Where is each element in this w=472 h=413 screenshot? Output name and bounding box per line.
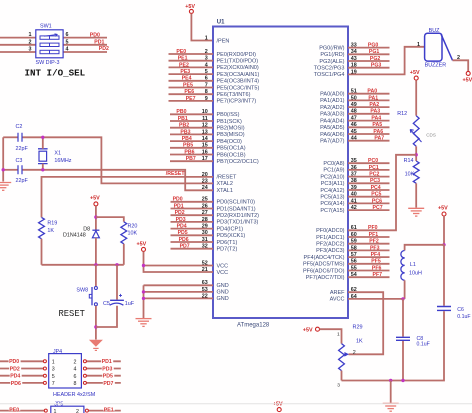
svg-text:ATmega128: ATmega128 (237, 322, 270, 328)
ground at R14 (408, 207, 424, 209)
svg-text:TOSC2/PG3: TOSC2/PG3 (314, 66, 345, 72)
wire C6 top lead (443, 245, 445, 306)
svg-text:22pF: 22pF (16, 146, 29, 152)
svg-text:PB7(OC2/OC1C): PB7(OC2/OC1C) (217, 159, 259, 165)
svg-text:PF5: PF5 (371, 259, 381, 265)
svg-text:+5V: +5V (410, 70, 420, 76)
wire XTAL1 net: C3 - X1 bottom - pin 24 (3, 169, 17, 171)
svg-text:PD4(ICP1): PD4(ICP1) (217, 226, 244, 232)
svg-text:PC5(A13): PC5(A13) (320, 195, 344, 201)
svg-text:PC0(A8): PC0(A8) (323, 161, 344, 167)
svg-text:3: 3 (29, 47, 32, 53)
wire PA0-PA7 stubs (348, 93, 390, 95)
potentiometer R29 (339, 344, 345, 371)
wire PF1-PF7 stubs (348, 236, 390, 238)
svg-text:PE1: PE1 (104, 408, 114, 413)
svg-text:PB5(OC1A): PB5(OC1A) (217, 146, 246, 152)
svg-text:8: 8 (74, 381, 77, 387)
wire SW1 left pins 1-3 (0, 37, 36, 39)
svg-text:PD0: PD0 (9, 359, 19, 365)
svg-text:PA7: PA7 (374, 136, 384, 142)
resistor R20 (121, 222, 127, 244)
svg-text:PC1(A9): PC1(A9) (323, 168, 344, 174)
wire R29 pin 1 (320, 329, 342, 343)
svg-text:PA3: PA3 (370, 109, 380, 115)
svg-text:PD2: PD2 (99, 46, 109, 52)
inductor L1 (401, 251, 405, 258)
wire L1 bottom to AVCC (404, 280, 406, 299)
svg-text:7: 7 (52, 381, 55, 387)
svg-text:PG0(/RW): PG0(/RW) (319, 45, 344, 51)
ground at C2/C3 (0, 182, 11, 184)
svg-text:0.1uF: 0.1uF (457, 314, 470, 320)
svg-text:PD7: PD7 (180, 244, 190, 250)
svg-text:GND: GND (217, 290, 229, 296)
svg-text:PE7: PE7 (186, 96, 196, 102)
ground reset (triangle) (89, 340, 103, 347)
svg-text:PD5: PD5 (178, 230, 188, 236)
svg-text:XTAL1: XTAL1 (217, 188, 233, 194)
svg-text:6: 6 (66, 32, 69, 38)
svg-text:1: 1 (54, 409, 57, 413)
svg-text:PD5(XCK1): PD5(XCK1) (217, 233, 246, 239)
svg-text:PE0(RXD0/PDI): PE0(RXD0/PDI) (217, 52, 257, 58)
wire +5V down to L1 junction (443, 216, 445, 245)
svg-text:PA6(AD6): PA6(AD6) (320, 132, 345, 138)
svg-text:PB7: PB7 (186, 156, 196, 162)
svg-text:4: 4 (74, 367, 77, 373)
svg-text:PA2: PA2 (369, 102, 379, 108)
svg-text:+5V: +5V (90, 196, 100, 202)
junction reset rail at C5 (115, 263, 118, 266)
svg-text:PD4: PD4 (177, 224, 187, 230)
wire JP5 right pin (88, 410, 120, 412)
junction reset rail at D8/SW8 (94, 263, 97, 266)
svg-text:PD6(T1): PD6(T1) (217, 240, 238, 246)
svg-text:PD3: PD3 (102, 366, 112, 372)
svg-text:PF4: PF4 (371, 252, 381, 258)
wire VCC pins 52/21 (144, 252, 214, 272)
junction crystal bottom (41, 168, 44, 171)
svg-text:C3: C3 (16, 158, 23, 164)
svg-text:PF0(ADC0): PF0(ADC0) (316, 228, 345, 234)
svg-text:HEADER 4x2/SM: HEADER 4x2/SM (53, 392, 96, 398)
svg-text:+5V: +5V (137, 242, 147, 248)
svg-text:10K: 10K (128, 231, 138, 237)
wire PD0-PD7 stubs (171, 201, 214, 203)
svg-text:PE6(T3/INT6): PE6(T3/INT6) (217, 92, 251, 98)
svg-text:C6: C6 (457, 307, 464, 313)
node labels JP4 right PD1/3/5/7 (101, 359, 113, 364)
wire C6 bottom lead (403, 311, 444, 380)
wire divider to PF0(ADC0) (348, 155, 416, 231)
svg-text:PA3(AD3): PA3(AD3) (320, 112, 345, 118)
svg-text:AVCC: AVCC (330, 297, 345, 303)
svg-text:PA0(AD0): PA0(AD0) (320, 92, 345, 98)
svg-text:PD1(SDA/INT1): PD1(SDA/INT1) (217, 206, 256, 212)
wire crystal leads (42, 137, 44, 149)
svg-text:PF2: PF2 (369, 239, 379, 245)
svg-text:PE1: PE1 (178, 56, 188, 62)
svg-text:PD2: PD2 (175, 210, 185, 216)
svg-text:PA5: PA5 (372, 122, 382, 128)
svg-text:10K: 10K (405, 171, 415, 177)
svg-text:PD0(SCL/INT0): PD0(SCL/INT0) (217, 200, 256, 206)
wire ground leg of C2/C3 (2, 137, 4, 181)
svg-text:/RESET: /RESET (166, 171, 186, 177)
svg-text:PB2: PB2 (179, 123, 189, 129)
svg-text:PF7: PF7 (373, 272, 383, 278)
svg-text:PC5: PC5 (371, 192, 381, 198)
wire C8 bottom lead (402, 341, 404, 381)
svg-text:1uF: 1uF (125, 301, 135, 307)
svg-text:PB1(SCK): PB1(SCK) (217, 119, 243, 125)
wire R20 top lead (96, 217, 124, 222)
svg-text:PC0: PC0 (368, 158, 378, 164)
node label PE0 at JP5 (9, 405, 20, 410)
switch SW1 (SW DIP-3) (36, 30, 63, 58)
capacitor C5 (110, 299, 124, 301)
svg-text:3: 3 (52, 367, 55, 373)
wire PB0-PB7 stubs (170, 113, 213, 115)
svg-text:R19: R19 (47, 221, 57, 227)
capacitor C3 (18, 165, 22, 174)
wire D8 to reset rail (95, 238, 97, 265)
svg-text:AREF: AREF (330, 290, 345, 296)
svg-text:GND: GND (217, 283, 229, 289)
junction rail at C8 (401, 379, 404, 382)
svg-text:PA6: PA6 (373, 129, 383, 135)
wire /RESET net R19 to pin 20 (42, 177, 214, 218)
ground bottom right (383, 402, 399, 404)
svg-text:PE0: PE0 (176, 49, 186, 55)
connector JP5 (51, 406, 84, 413)
wire AVCC pin 64 (348, 298, 403, 300)
svg-text:+5V: +5V (463, 78, 472, 84)
wire JP4 left pins (0, 360, 43, 362)
wire R12 bottom to junction (415, 146, 417, 161)
svg-text:PA4: PA4 (371, 116, 381, 122)
svg-text:/RESET: /RESET (217, 175, 238, 181)
svg-text:PC3: PC3 (370, 178, 380, 184)
capacitor C6 (437, 307, 451, 311)
node labels JP4 left PD0/2/4/6 (9, 359, 21, 364)
buzzer BUZ (425, 33, 442, 61)
svg-text:1K: 1K (356, 338, 363, 344)
svg-text:PF6: PF6 (372, 265, 382, 271)
wire L1 top lead (405, 245, 444, 251)
svg-text:JP5: JP5 (54, 401, 63, 407)
wire +5V to D8/R20 junction (95, 206, 97, 230)
wire GND pins 63/53/22 (144, 284, 214, 286)
svg-text:PE4(OC3B/INT4): PE4(OC3B/INT4) (217, 79, 260, 85)
svg-text:C2: C2 (16, 124, 23, 130)
svg-text:/PEN: /PEN (217, 38, 230, 44)
svg-text:1: 1 (417, 42, 420, 48)
svg-text:PE2(XCK0/AIN0): PE2(XCK0/AIN0) (217, 65, 259, 71)
wire SW8 bottom to ground (95, 306, 97, 340)
wire PE0-PE7 stubs (169, 53, 214, 55)
svg-text:PF5(ADC5/TMS): PF5(ADC5/TMS) (303, 262, 345, 268)
resistor R14 (413, 161, 419, 183)
crystal X1 (38, 149, 48, 164)
junction crystal top (41, 136, 44, 139)
svg-text:PF3: PF3 (370, 245, 380, 251)
svg-text:2: 2 (29, 39, 32, 45)
svg-text:PF1: PF1 (369, 232, 379, 238)
svg-text:PD3: PD3 (176, 217, 186, 223)
svg-text:PF3(ADC3): PF3(ADC3) (316, 248, 345, 254)
svg-text:PD4: PD4 (10, 374, 20, 380)
svg-text:PF4(ADC4/TCK): PF4(ADC4/TCK) (304, 255, 345, 261)
svg-text:PC2: PC2 (369, 172, 379, 178)
svg-text:PD1: PD1 (174, 203, 184, 209)
svg-text:PB4: PB4 (182, 136, 192, 142)
svg-text:PE4: PE4 (182, 76, 192, 82)
wire reset rail (42, 264, 124, 266)
svg-text:U1: U1 (217, 20, 225, 26)
svg-text:PC7: PC7 (373, 205, 383, 211)
svg-text:SW DIP-3: SW DIP-3 (36, 60, 60, 66)
wire C8 top lead (402, 299, 404, 337)
svg-text:BUZ: BUZ (429, 28, 440, 34)
svg-text:0.1uF: 0.1uF (417, 342, 430, 348)
svg-text:PE0: PE0 (9, 408, 19, 413)
svg-text:PE3: PE3 (180, 69, 190, 75)
svg-text:1K: 1K (47, 228, 54, 234)
wire PG0-PG3 stubs (348, 47, 390, 49)
wire R20 bottom lead (123, 244, 125, 265)
svg-text:D8: D8 (83, 227, 90, 233)
resistor R19 (39, 217, 45, 238)
wire R29 pin 3 to rail (341, 371, 343, 381)
svg-text:PB5: PB5 (183, 143, 193, 149)
svg-text:PE5: PE5 (183, 82, 193, 88)
svg-text:1: 1 (29, 32, 32, 38)
svg-text:PG2(ALE): PG2(ALE) (319, 59, 344, 65)
svg-text:PD7: PD7 (103, 381, 113, 387)
wire JP4 right pins (86, 360, 120, 362)
svg-text:CDS: CDS (426, 132, 436, 137)
svg-text:PB3: PB3 (180, 129, 190, 135)
svg-text:PE1(TXD0/PDO): PE1(TXD0/PDO) (217, 59, 259, 65)
svg-text:PD6: PD6 (11, 381, 21, 387)
svg-text:1: 1 (337, 331, 340, 337)
svg-text:PC3(A11): PC3(A11) (321, 181, 345, 187)
junction SW8/C5 ground leg (94, 325, 97, 328)
svg-text:3: 3 (337, 383, 340, 389)
node label PE1 at JP5 (103, 405, 115, 410)
svg-text:R14: R14 (404, 158, 414, 164)
svg-text:PG2: PG2 (370, 56, 380, 62)
svg-text:R29: R29 (353, 325, 363, 331)
svg-text:PB6(OC1B): PB6(OC1B) (217, 152, 246, 158)
svg-text:PC4(A12): PC4(A12) (320, 188, 344, 194)
window edge line (0, 403, 472, 405)
connector JP4 HEADER 4x2/SM (49, 354, 82, 388)
svg-text:1: 1 (205, 35, 208, 41)
capacitor C8 (396, 337, 410, 340)
svg-text:PA0: PA0 (367, 89, 377, 95)
svg-text:PE2: PE2 (179, 62, 189, 68)
svg-text:VCC: VCC (217, 270, 229, 276)
svg-text:JP4: JP4 (53, 349, 62, 355)
svg-text:XTAL2: XTAL2 (217, 181, 233, 187)
svg-text:PA5(AD5): PA5(AD5) (320, 125, 345, 131)
svg-text:PD6: PD6 (179, 237, 189, 243)
svg-text:5: 5 (66, 39, 69, 45)
svg-text:+5V: +5V (438, 205, 448, 211)
junction C3 ground leg (2, 168, 5, 171)
wire C5 top lead (116, 265, 118, 300)
svg-text:PD5: PD5 (103, 374, 113, 380)
svg-text:C5: C5 (103, 301, 110, 307)
svg-text:PE6: PE6 (184, 89, 194, 95)
svg-text:PD0: PD0 (173, 197, 183, 203)
svg-text:PD3(TXD1/INT3): PD3(TXD1/INT3) (217, 220, 259, 226)
svg-text:VCC: VCC (217, 263, 229, 269)
svg-text:PD7(T2): PD7(T2) (217, 247, 238, 253)
svg-text:PB0(/SS): PB0(/SS) (217, 112, 240, 118)
wire AREF pin 62 to wiper (348, 292, 383, 354)
diode D8 D1N4148 (92, 229, 99, 231)
svg-text:PB0: PB0 (176, 109, 186, 115)
wire PC0-PC7 stubs (348, 162, 390, 164)
svg-text:2: 2 (76, 409, 79, 413)
svg-text:R12: R12 (397, 111, 407, 117)
svg-text:PB2(MOSI): PB2(MOSI) (217, 126, 245, 132)
junction +5V/L1/C6 (442, 243, 445, 246)
microcontroller U1 ATmega128 body (213, 27, 348, 319)
wire JP5 left pin (0, 410, 44, 412)
junction +5V/R20 (94, 215, 97, 218)
svg-text:PG0: PG0 (368, 43, 378, 49)
svg-text:L1: L1 (410, 262, 416, 268)
svg-text:RESET: RESET (59, 309, 85, 319)
wire +5V to R12 (415, 80, 417, 115)
svg-text:PE7(ICP3/INT7): PE7(ICP3/INT7) (217, 99, 257, 105)
svg-text:PD2(RXD1/INT2): PD2(RXD1/INT2) (217, 213, 260, 219)
junction R12/R14 divider (415, 153, 418, 156)
switch SW8 (94, 287, 97, 290)
svg-text:PG1: PG1 (369, 49, 379, 55)
svg-text:R20: R20 (128, 223, 138, 229)
wire bottom ground rail (342, 380, 404, 382)
svg-text:X1: X1 (54, 150, 61, 156)
svg-text:PC7(A15): PC7(A15) (320, 208, 344, 214)
svg-text:2: 2 (457, 55, 460, 61)
wire SW8 top lead (95, 265, 97, 286)
junction VCC pin 52 (142, 264, 145, 267)
photoresistor R12 CDS (413, 116, 419, 147)
junction rail at ground (389, 379, 392, 382)
svg-text:10uH: 10uH (409, 271, 422, 277)
svg-text:SW1: SW1 (40, 24, 52, 30)
svg-text:PA7(AD7): PA7(AD7) (320, 139, 345, 145)
wire XTAL2 net: C2 - X1 top - pin 23 (3, 136, 17, 138)
svg-text:PA1(AD1): PA1(AD1) (320, 98, 345, 104)
svg-text:5: 5 (52, 374, 55, 380)
svg-text:+5V: +5V (273, 402, 283, 408)
wire +5V to pin 1 /PEN (191, 14, 213, 41)
wire R14 to ground (415, 183, 417, 207)
ground chip GND (136, 318, 152, 320)
svg-text:D1N4148: D1N4148 (63, 233, 86, 239)
svg-text:PC2(A10): PC2(A10) (320, 174, 344, 180)
svg-text:PD1: PD1 (94, 40, 104, 46)
svg-text:INT I/O_SEL: INT I/O_SEL (25, 68, 86, 79)
svg-text:PD0: PD0 (90, 32, 100, 38)
svg-text:6: 6 (74, 374, 77, 380)
svg-text:PA2(AD2): PA2(AD2) (320, 105, 345, 111)
svg-text:PG3: PG3 (371, 63, 381, 69)
svg-text:PA4(AD4): PA4(AD4) (320, 118, 345, 124)
svg-text:PB1: PB1 (178, 116, 188, 122)
svg-text:PE3(OC3A/AIN1): PE3(OC3A/AIN1) (217, 72, 260, 78)
svg-text:PC6: PC6 (372, 198, 382, 204)
svg-text:PF2(ADC2): PF2(ADC2) (316, 242, 345, 248)
svg-text:PC1: PC1 (369, 165, 379, 171)
svg-text:PB3(MISO): PB3(MISO) (217, 132, 245, 138)
capacitor C2 (18, 133, 22, 142)
svg-text:TOSC1/PG4: TOSC1/PG4 (314, 72, 345, 78)
wire R19 bottom lead (41, 239, 43, 265)
svg-text:PD1: PD1 (102, 359, 112, 365)
svg-text:PF7(ADC7/TDI): PF7(ADC7/TDI) (306, 275, 345, 281)
svg-text:PF1(ADC1): PF1(ADC1) (316, 235, 345, 241)
wire C5 bottom lead (96, 306, 117, 327)
svg-text:PG1(/RD): PG1(/RD) (320, 52, 344, 58)
wire ground drop (390, 381, 392, 403)
svg-text:2: 2 (353, 350, 356, 356)
svg-text:PD2: PD2 (10, 366, 20, 372)
junction AVCC/L1/C8 (401, 297, 404, 300)
svg-text:PE5(OC3C/INT5): PE5(OC3C/INT5) (217, 85, 260, 91)
svg-text:PB6: PB6 (184, 149, 194, 155)
svg-text:BUZZER: BUZZER (425, 63, 447, 69)
svg-text:PF6(ADC6/TDO): PF6(ADC6/TDO) (303, 268, 345, 274)
svg-text:2: 2 (74, 359, 77, 365)
svg-text:PC6(A14): PC6(A14) (320, 201, 344, 207)
junction GND pin 22 (142, 297, 145, 300)
wire SW1 right pins to PD0-PD2 (63, 37, 107, 39)
svg-text:1: 1 (52, 359, 55, 365)
svg-text:PA1: PA1 (368, 95, 378, 101)
wire pin 19 TOSC1/PG4 to buzzer (348, 47, 425, 75)
svg-text:16MHz: 16MHz (54, 158, 71, 164)
svg-text:GND: GND (217, 296, 229, 302)
svg-text:4: 4 (66, 47, 69, 53)
svg-text:+5V: +5V (303, 327, 313, 333)
svg-text:PB4(OC0): PB4(OC0) (217, 139, 243, 145)
wire buzzer pin 2 to +5V (453, 60, 469, 71)
svg-text:SW8: SW8 (76, 287, 88, 293)
svg-text:PC4: PC4 (371, 185, 381, 191)
svg-text:22pF: 22pF (16, 178, 29, 184)
junction GND pin 53 (142, 290, 145, 293)
